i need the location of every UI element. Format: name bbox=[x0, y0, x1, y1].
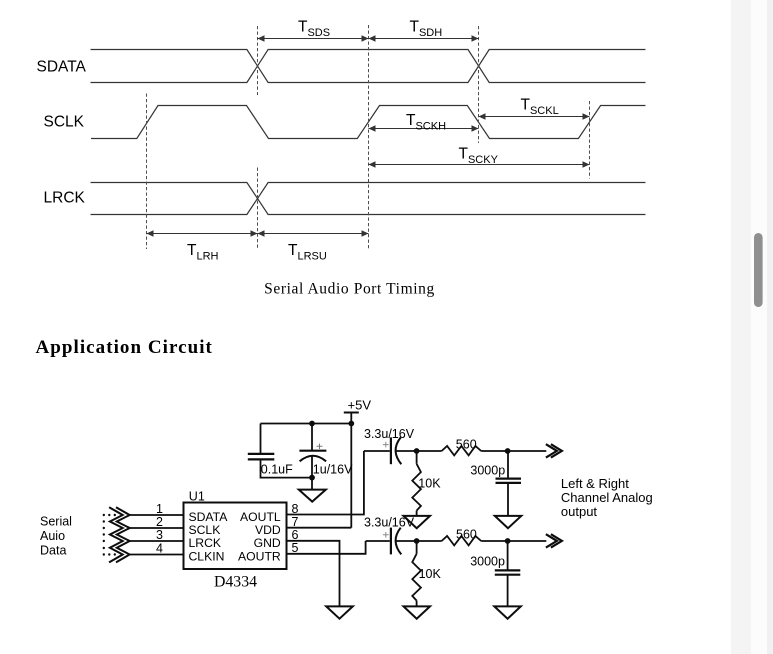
svg-text:LRCK: LRCK bbox=[44, 189, 86, 206]
dashed guide line at LRCK hold start bbox=[146, 94, 148, 250]
dashed guide line at SDATA transition upper bbox=[257, 26, 259, 95]
ground symbol for GND pin bbox=[326, 606, 353, 618]
svg-text:3.3u/16V: 3.3u/16V bbox=[364, 516, 415, 530]
wire +5V horizontal rail to bypass caps bbox=[261, 423, 352, 425]
junction node lower B bbox=[505, 538, 511, 544]
svg-text:Data: Data bbox=[40, 544, 66, 558]
wire pin 6 GND lead bbox=[287, 541, 340, 607]
svg-text:3: 3 bbox=[156, 528, 163, 542]
svg-text:1: 1 bbox=[156, 502, 163, 516]
wire 3000p lower bottom lead bbox=[507, 575, 509, 607]
svg-text:TSDS: TSDS bbox=[298, 19, 330, 40]
svg-text:6: 6 bbox=[292, 528, 299, 542]
power +5V tee bar bbox=[344, 412, 359, 414]
capacitor 3.3u/16V upper plus mark bbox=[383, 442, 389, 448]
capacitor C 1u/16V plus mark bbox=[317, 444, 323, 449]
ground symbol below 10K upper bbox=[404, 516, 431, 528]
dimension arrow TSCKY bbox=[369, 164, 590, 166]
capacitor 1u/16V electrolytic bbox=[299, 450, 326, 452]
svg-text:10K: 10K bbox=[418, 477, 441, 491]
svg-text:TSCKH: TSCKH bbox=[406, 112, 446, 133]
capacitor 3000p upper lead bbox=[507, 451, 509, 478]
svg-text:SDATA: SDATA bbox=[37, 59, 87, 76]
svg-text:Left & Right: Left & Right bbox=[561, 476, 629, 491]
wire pin 2 SCLK bbox=[130, 527, 184, 529]
junction dot 1u cap top bbox=[309, 421, 315, 427]
svg-text:560: 560 bbox=[456, 527, 477, 541]
signal SCLK waveform bbox=[91, 106, 646, 139]
bus entry chevron zigzag inner bbox=[109, 507, 123, 562]
svg-text:Auio: Auio bbox=[40, 529, 65, 543]
wire pin 3 LRCK bbox=[130, 540, 184, 542]
dimension arrow TSCKH bbox=[369, 128, 479, 130]
svg-text:GND: GND bbox=[254, 536, 281, 550]
wire pin 4 CLKIN bbox=[130, 554, 184, 556]
dimension arrow TSDS bbox=[258, 38, 369, 40]
svg-text:output: output bbox=[561, 504, 598, 519]
wire lower node A segment bbox=[397, 540, 442, 542]
svg-text:3000p: 3000p bbox=[470, 554, 505, 568]
resistor 560 upper bbox=[442, 446, 482, 455]
wire 3000p upper bottom lead bbox=[507, 483, 509, 516]
signal LRCK waveform line A bbox=[91, 183, 646, 215]
svg-text:3000p: 3000p bbox=[470, 464, 505, 478]
svg-text:LRCK: LRCK bbox=[189, 536, 222, 550]
wire upper row into coupling cap bbox=[364, 450, 390, 452]
wire 0.1uF cap top lead bbox=[260, 424, 262, 454]
svg-text:10K: 10K bbox=[419, 567, 442, 581]
wire pin 7 VDD to +5V rail bbox=[287, 527, 352, 529]
wire lower row into coupling cap bbox=[366, 540, 390, 542]
svg-text:SCLK: SCLK bbox=[189, 523, 221, 537]
svg-text:SCLK: SCLK bbox=[44, 114, 85, 131]
svg-text:3.3u/16V: 3.3u/16V bbox=[364, 427, 415, 441]
dimension arrow TSCKL bbox=[479, 116, 590, 118]
capacitor 3.3u/16V lower plus mark bbox=[383, 532, 389, 538]
wire upper node B segment bbox=[481, 450, 546, 452]
svg-text:7: 7 bbox=[292, 515, 299, 529]
wire pin 8 AOUTL to upper channel bbox=[287, 451, 364, 515]
ground symbol below 1u/16V bbox=[299, 490, 326, 502]
capacitor 3000p upper bbox=[496, 479, 522, 483]
svg-text:Serial: Serial bbox=[40, 515, 72, 529]
svg-text:D4334: D4334 bbox=[214, 574, 257, 591]
svg-text:4: 4 bbox=[156, 542, 163, 556]
svg-text:1u/16V: 1u/16V bbox=[313, 463, 353, 477]
ground symbol below 10K lower bbox=[404, 606, 431, 618]
resistor 560 lower bbox=[442, 536, 482, 545]
svg-text:TSCKY: TSCKY bbox=[459, 146, 499, 167]
wire 0.1uF cap bottom lead bbox=[261, 459, 313, 477]
svg-text:U1: U1 bbox=[189, 489, 205, 503]
svg-text:TLRSU: TLRSU bbox=[288, 242, 327, 263]
signal SDATA waveform line A bbox=[91, 50, 646, 83]
svg-text:Application Circuit: Application Circuit bbox=[36, 337, 213, 358]
signal LRCK waveform line B bbox=[91, 183, 646, 215]
dashed guide line at LRCK transition lower bbox=[257, 168, 259, 250]
resistor 10K lower bbox=[416, 541, 418, 554]
capacitor 3000p lower bbox=[495, 570, 521, 574]
svg-text:VDD: VDD bbox=[255, 523, 281, 537]
junction node upper A bbox=[414, 448, 420, 454]
resistor 10K upper bbox=[416, 451, 418, 464]
dashed guide line at SCLK rising edge bbox=[368, 25, 370, 249]
dimension arrow TSDH bbox=[369, 38, 479, 40]
APPLICATION CIRCUIT SCHEMATIC bbox=[109, 413, 562, 619]
dashed guide line at SCLK falling edge bbox=[478, 26, 480, 143]
bus continuation dots top row bbox=[103, 514, 105, 516]
scrollbar track bbox=[751, 0, 767, 654]
junction node upper B bbox=[505, 448, 511, 454]
svg-text:SDATA: SDATA bbox=[189, 510, 229, 524]
svg-text:TLRH: TLRH bbox=[187, 242, 219, 263]
svg-text:CLKIN: CLKIN bbox=[189, 550, 225, 564]
wire lower node B segment bbox=[481, 540, 546, 542]
ground symbol below 3000p upper bbox=[495, 516, 522, 528]
svg-text:AOUTR: AOUTR bbox=[238, 550, 281, 564]
svg-text:TSDH: TSDH bbox=[410, 19, 443, 40]
capacitor 3.3u/16V upper electrolytic bbox=[390, 437, 392, 464]
dimension arrow TLRH bbox=[147, 233, 258, 235]
bus continuation dots column bbox=[103, 520, 105, 522]
svg-text:+5V: +5V bbox=[348, 398, 372, 413]
svg-text:5: 5 bbox=[292, 541, 299, 555]
TIMING DIAGRAM bbox=[91, 50, 646, 215]
window edge strip bbox=[767, 0, 773, 654]
svg-text:TSCKL: TSCKL bbox=[521, 97, 559, 118]
junction node lower A bbox=[414, 538, 420, 544]
output connector chevrons lower bbox=[546, 534, 562, 547]
scrollbar gutter bbox=[731, 0, 751, 654]
svg-text:Serial Audio Port Timing: Serial Audio Port Timing bbox=[264, 281, 435, 298]
bus entry chevron zigzag outer bbox=[116, 507, 130, 562]
junction dot 1u cap bottom bbox=[309, 475, 315, 481]
wire 1u cap bottom lead bbox=[311, 456, 313, 490]
svg-text:Channel Analog: Channel Analog bbox=[561, 490, 653, 505]
junction dot +5V rail right bbox=[348, 421, 354, 427]
wire pin 5 AOUTR to lower channel bbox=[287, 541, 366, 554]
capacitor 3000p lower lead bbox=[507, 541, 509, 570]
dimension arrow TLRSU bbox=[258, 233, 369, 235]
ground symbol below 3000p lower bbox=[494, 606, 521, 618]
scrollbar thumb bbox=[754, 233, 763, 307]
wire +5V vertical rail down to VDD pin 7 bbox=[350, 413, 352, 528]
svg-text:560: 560 bbox=[456, 438, 477, 452]
svg-text:2: 2 bbox=[156, 515, 163, 529]
wire upper node A segment bbox=[397, 450, 442, 452]
bus continuation dots bottom row bbox=[103, 553, 105, 555]
output connector chevrons upper bbox=[546, 444, 562, 457]
dashed guide line at SCLK second rising edge bbox=[589, 101, 591, 179]
IC U1 D4334 body bbox=[184, 503, 287, 570]
capacitor 3.3u/16V lower electrolytic bbox=[390, 528, 392, 555]
wire pin 1 SDATA bbox=[130, 514, 184, 516]
wire 1u cap top lead bbox=[311, 424, 313, 451]
signal SDATA waveform line B bbox=[91, 50, 646, 83]
svg-text:AOUTL: AOUTL bbox=[240, 510, 281, 524]
svg-text:8: 8 bbox=[292, 502, 299, 516]
svg-text:0.1uF: 0.1uF bbox=[261, 463, 293, 477]
capacitor 0.1uF bbox=[248, 454, 274, 460]
